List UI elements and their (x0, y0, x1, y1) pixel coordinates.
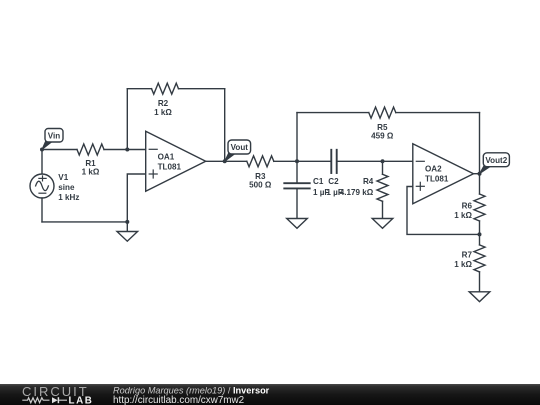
ground G2 (287, 219, 308, 229)
op-amp OA1 (146, 131, 206, 191)
wire R2 branch left riser (126, 89, 128, 150)
svg-text:TL081: TL081 (425, 175, 449, 184)
ground G3 (372, 219, 393, 229)
svg-text:R2: R2 (158, 99, 169, 108)
wire R7 bottom lead (479, 272, 481, 292)
wire R2 right riser to output (224, 89, 226, 162)
resistor R4 (340, 174, 388, 201)
net flag Vout2 (480, 153, 510, 174)
wire V1 bottom lead (41, 198, 43, 222)
resistor R2 (152, 83, 179, 117)
svg-text:OA1: OA1 (158, 153, 175, 162)
svg-text:Vin: Vin (48, 131, 61, 140)
svg-text:Vout2: Vout2 (485, 156, 507, 165)
node Vin (40, 148, 44, 152)
wire C1 top lead (296, 161, 298, 183)
node R6/R7 junction (478, 232, 482, 236)
wire R5 right riser to OA2 output (479, 113, 481, 174)
net flag Vout (225, 140, 251, 161)
wire ground stub (126, 222, 128, 232)
wire R1 to OA1 inverting input (104, 149, 146, 151)
footer attribution text (113, 385, 270, 405)
wire R7 top lead (479, 234, 481, 245)
capacitor C2 (326, 150, 342, 197)
wire OA2 noninverting input feedback (407, 187, 480, 235)
wire node A to C2 (297, 160, 331, 162)
svg-text:OA2: OA2 (425, 165, 442, 174)
resistor R1 (77, 144, 104, 177)
wire R5 left riser (296, 113, 298, 162)
resistor R7 (454, 245, 485, 272)
voltage source V1 (30, 173, 79, 202)
svg-text:1 kΩ: 1 kΩ (454, 211, 472, 220)
wire node B to OA2 inverting input (383, 160, 413, 162)
svg-text:R7: R7 (462, 251, 473, 260)
ground G4 (469, 292, 490, 302)
wire R5 right lead (396, 112, 480, 114)
resistor R6 (454, 194, 485, 221)
node junction R1/R2 (125, 148, 129, 152)
svg-text:C2: C2 (328, 177, 339, 186)
wire R2 left lead (127, 88, 151, 90)
CircuitLab logo (22, 384, 93, 405)
wire R4 bottom lead (382, 201, 384, 218)
node Vout2 (478, 172, 482, 176)
svg-text:1 kΩ: 1 kΩ (82, 168, 100, 177)
svg-text:LAB: LAB (69, 395, 94, 405)
wire OA1 output (206, 160, 225, 162)
svg-text:459 Ω: 459 Ω (371, 132, 394, 141)
wire V1 top lead (41, 150, 43, 175)
svg-text:1 kΩ: 1 kΩ (154, 108, 172, 117)
svg-text:Vout: Vout (231, 143, 249, 152)
svg-text:4.179 kΩ: 4.179 kΩ (340, 188, 374, 197)
wire R6 top lead (479, 174, 481, 194)
wire R4 top lead (382, 161, 384, 174)
op-amp OA2 (413, 144, 474, 204)
svg-text:http://circuitlab.com/cxw7mw2: http://circuitlab.com/cxw7mw2 (113, 395, 244, 405)
resistor R5 (369, 107, 396, 140)
wire C2 to node B (337, 160, 383, 162)
node Vout (223, 159, 227, 163)
resistor R3 (247, 156, 274, 190)
wire R3 to node A (274, 160, 297, 162)
wire Vin node to R1 (42, 149, 77, 151)
svg-text:C1: C1 (313, 177, 324, 186)
node A (295, 159, 299, 163)
wire V1 to ground node (42, 221, 127, 223)
svg-text:V1: V1 (58, 173, 68, 182)
node B (381, 159, 385, 163)
svg-text:sine: sine (58, 183, 75, 192)
wire R2 right lead (179, 88, 225, 90)
footer bar (0, 384, 540, 405)
wire C1 bottom lead (296, 188, 298, 218)
node ground junction (125, 220, 129, 224)
svg-text:R4: R4 (363, 177, 374, 186)
wire R6 bottom lead (479, 221, 481, 234)
net flag Vin (42, 129, 63, 150)
svg-text:1 kHz: 1 kHz (58, 193, 79, 202)
svg-text:500 Ω: 500 Ω (249, 181, 272, 190)
wire Vout to R3 (225, 160, 247, 162)
capacitor C1 (284, 177, 329, 197)
ground G1 (117, 232, 138, 242)
svg-text:R6: R6 (462, 202, 473, 211)
svg-text:TL081: TL081 (158, 163, 182, 172)
wire OA1 noninverting input (127, 174, 145, 222)
wire OA2 output (474, 173, 480, 175)
svg-text:1 kΩ: 1 kΩ (454, 260, 472, 269)
wire R5 left lead (297, 112, 369, 114)
